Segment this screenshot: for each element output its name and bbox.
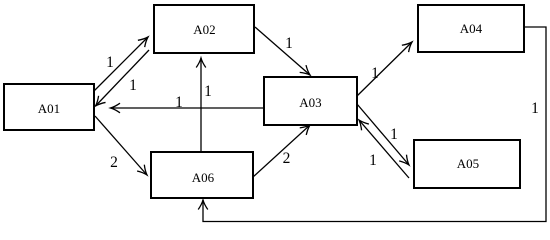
svg-text:1: 1 [531, 100, 539, 117]
svg-text:1: 1 [175, 94, 183, 111]
svg-text:A06: A06 [192, 170, 215, 185]
svg-text:A04: A04 [460, 21, 483, 36]
svg-text:1: 1 [390, 126, 398, 143]
svg-text:1: 1 [285, 35, 293, 52]
svg-text:2: 2 [283, 150, 291, 167]
svg-text:A05: A05 [457, 156, 479, 171]
svg-text:2: 2 [110, 154, 118, 171]
svg-text:A02: A02 [193, 22, 215, 37]
svg-text:A01: A01 [38, 101, 60, 116]
svg-text:1: 1 [106, 54, 114, 71]
svg-text:1: 1 [204, 83, 212, 100]
svg-text:1: 1 [129, 77, 137, 94]
svg-text:A03: A03 [299, 95, 321, 110]
svg-text:1: 1 [371, 65, 379, 82]
svg-text:1: 1 [369, 152, 377, 169]
